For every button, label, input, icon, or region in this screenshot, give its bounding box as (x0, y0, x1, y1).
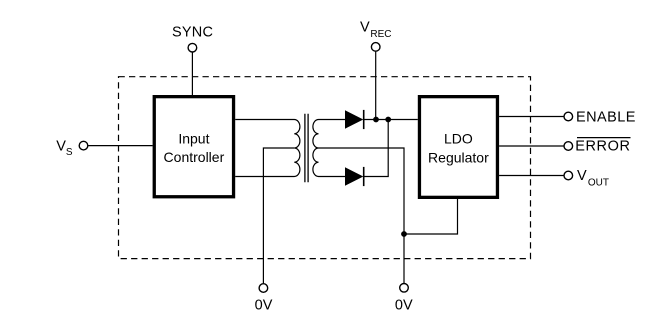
terminal ENABLE (564, 112, 573, 121)
svg-text:0V: 0V (395, 297, 413, 313)
svg-text:ERROR: ERROR (575, 138, 630, 154)
terminal VREC (371, 43, 380, 52)
terminal ERROR (564, 142, 573, 151)
transformer T1 secondary winding (313, 120, 345, 177)
terminal VS (79, 141, 88, 150)
wire ERROR (499, 145, 564, 147)
svg-text:LDO: LDO (444, 130, 473, 146)
terminal 0V left (259, 284, 268, 293)
diode D1 (345, 110, 365, 129)
IC boundary (dashed) (119, 77, 531, 259)
wire D2 cathode riser to VREC node (364, 120, 388, 177)
junction dot D2 cathode node (385, 117, 391, 123)
svg-text:Controller: Controller (164, 149, 225, 165)
transformer T1 core (305, 114, 308, 182)
wire VREC riser (375, 52, 377, 120)
junction dot 0V node (401, 231, 407, 237)
block U1 Input Controller (154, 97, 233, 197)
wire VOUT (499, 175, 564, 177)
wire LDO ground pin (404, 199, 458, 234)
terminal 0V right (400, 284, 409, 293)
wire SYNC to Input Controller (191, 52, 193, 95)
block U2 LDO Regulator (419, 97, 497, 198)
wire primary center tap to 0V left (263, 148, 294, 283)
transformer T1 primary winding (235, 120, 300, 177)
junction dot VREC node (373, 117, 379, 123)
wire VS to Input Controller (88, 145, 153, 147)
terminal VOUT (564, 171, 573, 180)
svg-text:Regulator: Regulator (428, 149, 489, 165)
svg-text:Input: Input (178, 131, 209, 147)
wire ENABLE (499, 116, 564, 118)
terminal SYNC (188, 43, 197, 52)
label ERROR with overline (575, 138, 630, 155)
svg-text:ENABLE: ENABLE (576, 110, 636, 126)
diode D2 (345, 167, 365, 186)
svg-text:0V: 0V (255, 297, 273, 313)
wire D1 cathode to LDO (364, 119, 418, 121)
wire secondary center tap to 0V right (319, 148, 405, 283)
svg-text:SYNC: SYNC (172, 25, 213, 41)
